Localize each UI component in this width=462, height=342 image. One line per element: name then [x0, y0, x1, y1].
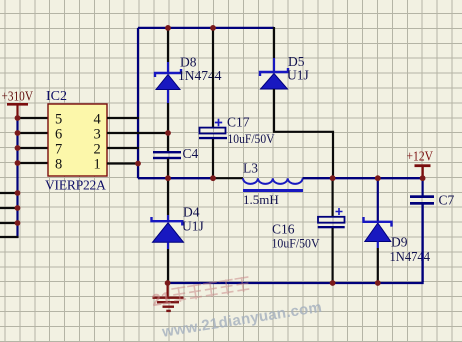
wire pin2	[107, 147, 139, 149]
wire D5 drop	[273, 27, 275, 58]
wire pin5 stub	[18, 117, 49, 119]
capacitor C7	[410, 178, 455, 282]
diode D4	[152, 205, 204, 284]
wire pin6 stub	[18, 132, 49, 134]
diode D8	[155, 55, 222, 134]
wire left vertical x138	[137, 28, 139, 178]
wire mid rail left	[138, 177, 214, 179]
wire C17 to rail	[212, 139, 214, 178]
wire aux3 left	[0, 222, 18, 224]
diode D9	[364, 217, 431, 283]
node junction dots	[15, 25, 426, 286]
capacitor C17	[199, 115, 275, 147]
wire pin3	[107, 132, 168, 134]
power +310V	[2, 89, 34, 118]
wire D8 drop	[167, 27, 169, 62]
watermark blue www.21dianyuan.com	[161, 283, 420, 340]
wire D9 drop	[377, 178, 379, 222]
diode D5	[260, 54, 309, 89]
wire C17 drop	[212, 27, 214, 128]
wire aux2 left	[0, 207, 18, 209]
wire top bus	[138, 27, 274, 29]
ground	[153, 283, 184, 312]
wire D4 drop	[167, 178, 169, 215]
inductor L3	[243, 161, 303, 208]
wire pin8 stub	[18, 162, 49, 164]
wire D5 to rail	[274, 89, 333, 178]
wire aux1 left	[0, 192, 18, 194]
wire mid rail right	[303, 177, 423, 179]
wire pin4	[107, 117, 139, 119]
power +12V	[407, 149, 434, 179]
wire +310V vertical rail	[16, 117, 18, 238]
wire pin1	[107, 162, 139, 164]
wire aux4 left	[0, 236, 19, 238]
capacitor C4	[153, 133, 199, 178]
IC U2	[45, 89, 107, 193]
wire bottom bus	[168, 281, 423, 283]
capacitor C16	[272, 178, 345, 283]
wire pin7 stub	[18, 147, 49, 149]
svg-text:21: 21	[150, 288, 172, 310]
